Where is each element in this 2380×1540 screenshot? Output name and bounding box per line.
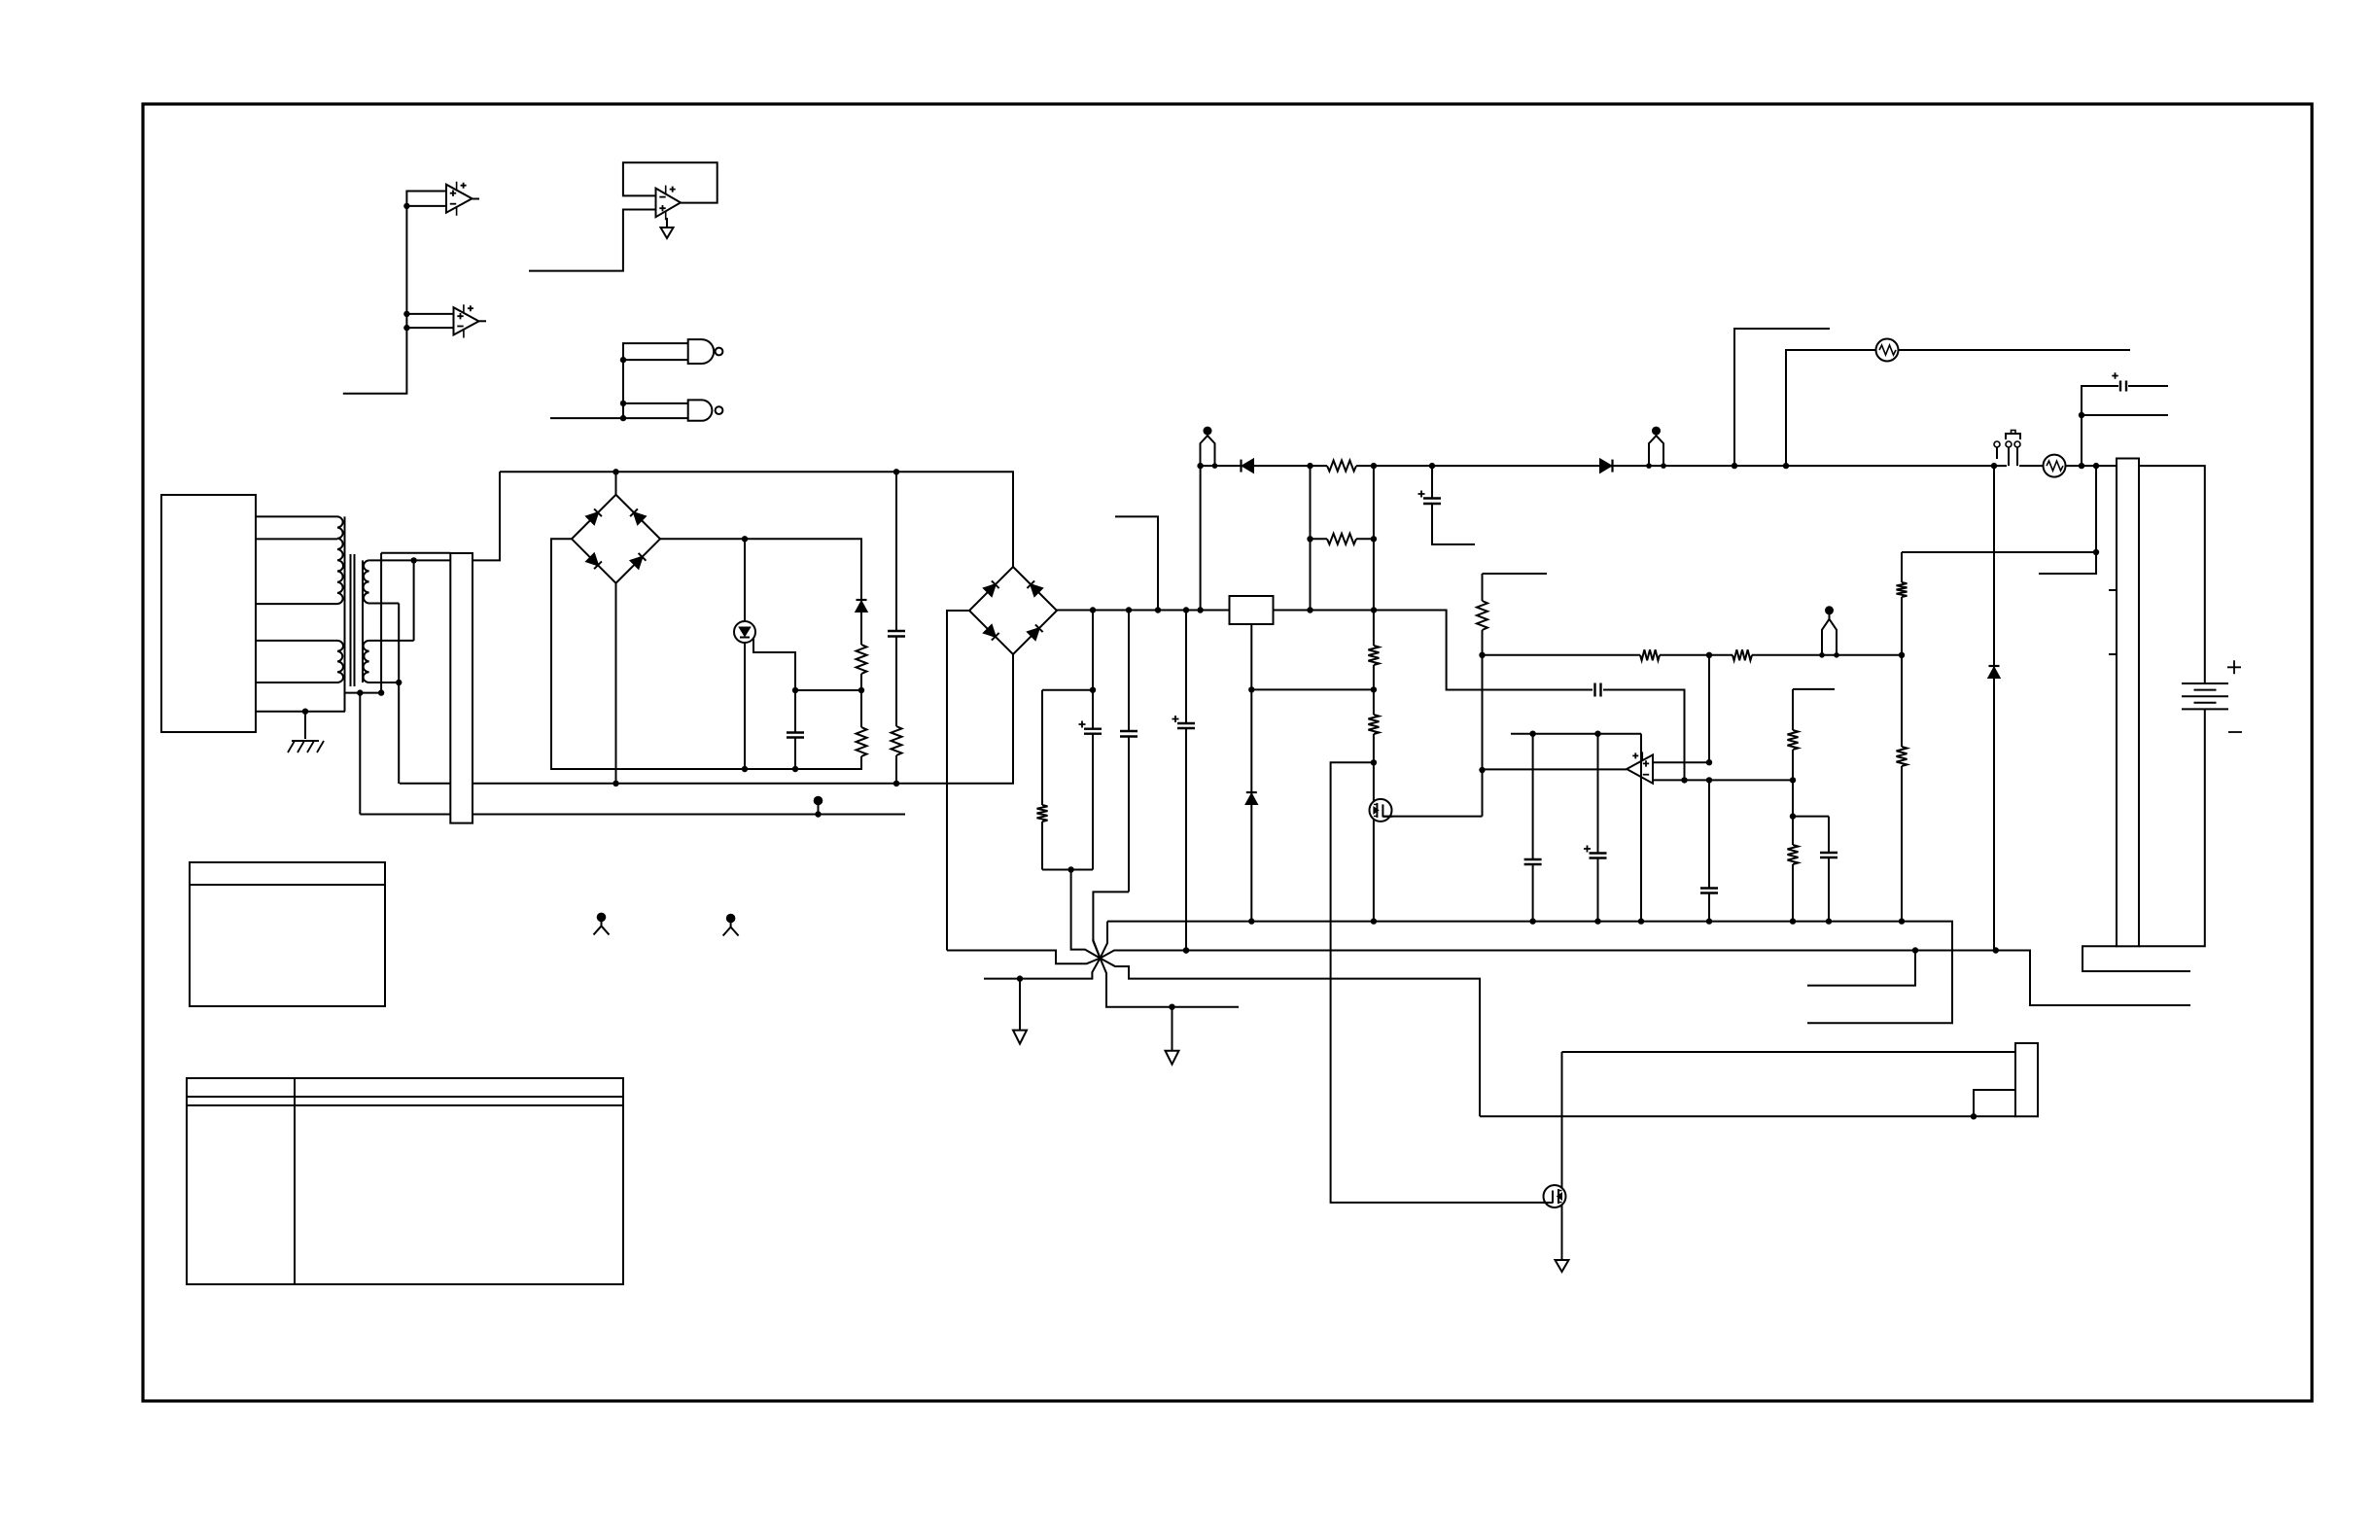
node busA x1881 bbox=[1826, 918, 1832, 924]
resistor R11 bbox=[1327, 534, 1356, 544]
IC box drop bbox=[1250, 624, 1252, 922]
comparator U4 bbox=[1627, 754, 1653, 783]
transformer T1 primary baseline bbox=[344, 516, 346, 711]
wire top-right caps branch bbox=[2082, 386, 2168, 466]
node rail7 bbox=[2079, 463, 2084, 469]
wire busB drop stub bbox=[1807, 951, 1915, 986]
node sn1 bbox=[1090, 687, 1096, 693]
wire B2 left loop bbox=[947, 611, 969, 951]
wire NAND feeder bbox=[623, 343, 688, 418]
node bus4 bbox=[1183, 607, 1189, 612]
wire M1 chain top bbox=[1373, 466, 1375, 646]
bridge rectifier B2 bbox=[969, 567, 1057, 654]
wire stub up-left of B2 bbox=[1115, 516, 1158, 610]
node rail8 bbox=[2093, 463, 2099, 469]
capacitor C4 bbox=[1185, 611, 1187, 724]
node bus2 bbox=[1126, 607, 1132, 612]
wire battery negative bbox=[2139, 709, 2205, 946]
NAND gate G1 bbox=[688, 339, 714, 364]
node L1b bbox=[893, 781, 899, 787]
resistor R1 bbox=[857, 645, 867, 674]
wire U2 top input bbox=[406, 313, 453, 315]
node gA bbox=[1017, 975, 1023, 981]
wire NAND1 lower input bbox=[623, 359, 688, 361]
node b674b bbox=[1706, 652, 1712, 658]
diode D5 bbox=[1246, 794, 1257, 804]
wire U4 plus input bbox=[1653, 761, 1709, 763]
capacitor C1 bbox=[787, 733, 804, 738]
sense divider R10 bbox=[1901, 655, 1903, 747]
capacitor C7 bbox=[1595, 683, 1601, 697]
node sn2 bbox=[1067, 866, 1073, 872]
wire U5 gate step bbox=[753, 639, 795, 691]
node rail6 bbox=[1991, 463, 1997, 469]
resistor R6 bbox=[1640, 649, 1660, 660]
wire snubber to star bbox=[1071, 870, 1101, 959]
wire B1 top lead bbox=[615, 472, 617, 495]
ground GND2 bbox=[1172, 1007, 1173, 1051]
wire D4 branch bbox=[1993, 466, 1995, 950]
node div1 bbox=[1790, 813, 1796, 819]
wire U1 bottom input bbox=[406, 205, 446, 207]
wire cap branch bbox=[1793, 816, 1829, 818]
wire cap line bbox=[1374, 611, 1685, 781]
node busA x1844 bbox=[1790, 918, 1796, 924]
wire U3 plus input bbox=[529, 210, 656, 271]
resistor R7 bbox=[1732, 649, 1752, 660]
wire aux secondary top bbox=[381, 553, 450, 693]
wire star SE line bbox=[1101, 959, 1481, 1117]
capacitor C11 bbox=[1828, 817, 1830, 853]
wire shunt line low bbox=[1480, 1115, 2015, 1117]
wire S2 bottom bbox=[369, 682, 400, 683]
wire primary lead 5 bbox=[256, 682, 337, 683]
node sh1 bbox=[1971, 1113, 1977, 1119]
node rc1 bbox=[1529, 731, 1535, 737]
ground GND1 bbox=[1019, 979, 1021, 1031]
wire inner link bbox=[795, 689, 861, 691]
transformer T1 primary winding 2 bbox=[337, 641, 343, 682]
node L2a bbox=[815, 811, 821, 817]
wire line1 HV return bbox=[400, 654, 1013, 784]
wire J1 to top line bbox=[472, 472, 500, 560]
wire R11 net bbox=[1311, 538, 1374, 540]
wire U4 output bbox=[1483, 768, 1627, 770]
wire IC sense link bbox=[1251, 688, 1374, 690]
node busB2 bbox=[1912, 947, 1918, 953]
node ic1 bbox=[1248, 686, 1254, 692]
node sense1 bbox=[2093, 549, 2099, 555]
transformer T1 primary winding 1 bbox=[337, 516, 343, 604]
node TL2 bbox=[893, 469, 899, 474]
capacitor C5 bbox=[1431, 466, 1433, 498]
node mc2 bbox=[1307, 536, 1312, 542]
transformer T1 secondary winding 1 bbox=[364, 560, 369, 603]
node cmp4 bbox=[1790, 777, 1796, 783]
diode D4 bbox=[1989, 668, 2000, 678]
wire bus B left bbox=[947, 951, 1101, 964]
star junction bbox=[1101, 922, 1108, 959]
resistor R8 bbox=[1477, 601, 1487, 630]
node rail5 bbox=[1783, 463, 1789, 469]
wire Q2 drain line bbox=[1562, 1051, 2016, 1053]
wire chassis ground lead bbox=[304, 712, 306, 739]
wire stub B bbox=[2082, 414, 2168, 416]
resistor R2 bbox=[857, 727, 867, 756]
wire bias drop bbox=[1708, 655, 1710, 762]
node N3 bbox=[620, 415, 626, 421]
capacitor C10 bbox=[1708, 780, 1710, 888]
wire sense link bbox=[1902, 551, 2096, 553]
wire battery positive bbox=[2139, 466, 2205, 683]
node cmp5 bbox=[1706, 777, 1712, 783]
wire DC rail bbox=[1201, 465, 2117, 467]
wire return drop bbox=[359, 693, 361, 815]
wire snubber bottom link bbox=[1042, 869, 1093, 871]
op-amp U3 bbox=[656, 189, 682, 218]
node C1b bbox=[792, 766, 798, 772]
chassis ground bbox=[292, 740, 319, 742]
wire RC top line bbox=[1511, 733, 1641, 735]
transformer T1 core bbox=[350, 554, 352, 686]
border frame bbox=[143, 104, 2312, 1401]
node N1 bbox=[620, 357, 626, 363]
wire NAND2 lower net bbox=[550, 417, 688, 419]
node S1t bbox=[410, 557, 416, 563]
ground GND4 bbox=[1556, 1260, 1569, 1272]
wire thermistor line bbox=[1786, 350, 2130, 466]
node rail3 bbox=[1429, 463, 1435, 469]
capacitor C6 bbox=[2120, 381, 2126, 392]
node busA x1412.9 bbox=[1371, 918, 1377, 924]
node tr1 bbox=[2079, 412, 2084, 418]
pin P2 bbox=[1649, 436, 1663, 466]
wire primary lead 1 bbox=[256, 515, 337, 517]
node bus5 bbox=[1197, 607, 1203, 612]
node bus6 bbox=[1307, 607, 1312, 612]
wire U2 output bbox=[479, 320, 487, 322]
wire snubber top link bbox=[1042, 689, 1093, 691]
op-amp U1 bbox=[446, 185, 472, 213]
wire S1top-S2top tie bbox=[369, 560, 414, 641]
wire shunt stub bbox=[1974, 1090, 2015, 1116]
wire J2 bottom stub bbox=[2082, 946, 2190, 971]
wire C3 jog to star bbox=[1093, 892, 1129, 958]
zener diode D1 bbox=[857, 602, 867, 612]
wire primary lead 4 bbox=[256, 640, 337, 642]
wire U1 top input rail bbox=[343, 192, 446, 394]
wire J2 tick2 bbox=[2109, 653, 2117, 655]
wire U3 feedback loop bbox=[623, 162, 717, 202]
wire bus B right bbox=[1101, 951, 2191, 1006]
op-amp U2 bbox=[454, 307, 479, 334]
node busB3 bbox=[1993, 947, 1999, 953]
resistor chain R3 bbox=[895, 472, 897, 631]
MOSFET Q1 bbox=[1370, 799, 1392, 822]
node gB bbox=[1169, 1004, 1174, 1010]
node busA x1643.5 bbox=[1594, 918, 1600, 924]
wire star SSE line bbox=[1101, 959, 1240, 1007]
wire bus A bbox=[1107, 922, 1952, 1024]
wire J2 tick1 bbox=[2109, 589, 2117, 591]
resistor R5 bbox=[1327, 461, 1356, 472]
capacitor C2 bbox=[1092, 611, 1094, 729]
wire S1 top to connector bbox=[369, 559, 451, 561]
node GNDtap bbox=[302, 709, 308, 715]
wire B1 left loop bbox=[551, 539, 861, 769]
node b674a bbox=[1479, 652, 1485, 658]
MOSFET Q2 bbox=[1544, 1185, 1566, 1207]
wire star SW line bbox=[984, 959, 1101, 979]
divider chain Rdiv bbox=[1793, 688, 1835, 690]
resistor R4 bbox=[1041, 690, 1043, 805]
connector J1 bbox=[450, 553, 472, 823]
node U2b bbox=[403, 325, 409, 331]
wire secondary return stub bbox=[345, 692, 381, 694]
node U1b bbox=[403, 203, 409, 209]
table T2 bbox=[187, 1078, 623, 1284]
diode D2 bbox=[1242, 460, 1253, 472]
capacitor C9 bbox=[1597, 734, 1599, 854]
node U2a bbox=[403, 311, 409, 317]
wire S1 bottom bbox=[369, 604, 400, 785]
connector J2 bbox=[2117, 459, 2139, 947]
optocoupler/regulator U5 bbox=[744, 539, 746, 621]
node rc2 bbox=[1594, 731, 1600, 737]
IC box U6 bbox=[1230, 596, 1274, 624]
node bus1 bbox=[1090, 607, 1096, 612]
resistor R12 bbox=[1368, 646, 1379, 665]
capacitor C8 bbox=[1532, 734, 1534, 859]
wire Q1 gate bbox=[1382, 816, 1482, 818]
capacitor C3 bbox=[1128, 611, 1130, 732]
ground U3 bbox=[666, 218, 668, 227]
jumper SW1 bbox=[2009, 447, 2017, 466]
node mc3 bbox=[1371, 686, 1377, 692]
wire line2 aux return bbox=[360, 814, 905, 816]
test point TP1 bbox=[814, 796, 823, 806]
node rail1 bbox=[1307, 463, 1312, 469]
pin P1 bbox=[1201, 436, 1215, 466]
wire main bus bbox=[1057, 610, 1374, 612]
node C4b bbox=[1183, 947, 1189, 953]
table T1 bbox=[190, 862, 385, 1006]
bridge rectifier B1 bbox=[572, 495, 660, 583]
node opto top bbox=[742, 536, 748, 542]
node bus3 bbox=[1155, 607, 1161, 612]
node b674c bbox=[1899, 652, 1905, 658]
node N2 bbox=[620, 401, 626, 406]
wire NAND2 upper input bbox=[623, 402, 688, 404]
node bus7 bbox=[1371, 607, 1377, 612]
node mc4 bbox=[1371, 759, 1377, 765]
node L1a bbox=[612, 781, 618, 787]
battery BT1 bbox=[2182, 682, 2228, 684]
wire U2 bottom input bbox=[406, 327, 453, 329]
node opto bottom bbox=[742, 766, 748, 772]
wire bias line 674 bbox=[1483, 654, 1903, 656]
node comp1 bbox=[1479, 767, 1485, 773]
wire Q2 vertical bbox=[1561, 1052, 1563, 1260]
node busA x1688 bbox=[1638, 918, 1644, 924]
wire B1 bottom lead bbox=[615, 583, 617, 784]
node chain mid bbox=[858, 687, 864, 693]
wire rail-bus link bbox=[1200, 466, 1202, 610]
node busA x1956 bbox=[1899, 918, 1905, 924]
wire primary lead 2 bbox=[256, 538, 337, 540]
wire gate drive drop bbox=[1331, 762, 1553, 1203]
node SR2 bbox=[378, 689, 384, 695]
net flag A2 bbox=[726, 914, 736, 924]
node mc1 bbox=[1371, 536, 1377, 542]
wire HV top line bbox=[500, 472, 1013, 567]
thermistor TH1 bbox=[1876, 339, 1899, 362]
wire RC right leg bbox=[1640, 734, 1642, 922]
wire U1 output bbox=[472, 198, 480, 200]
NAND gate G2 bbox=[688, 400, 713, 420]
node S2b bbox=[396, 680, 402, 685]
node rail4 bbox=[1732, 463, 1737, 469]
node rail2 bbox=[1371, 463, 1377, 469]
node rail0 bbox=[1197, 463, 1203, 469]
wire U4 minus input bbox=[1653, 779, 1793, 781]
wire stub A bbox=[1734, 329, 1830, 466]
node busA x1758 bbox=[1706, 918, 1712, 924]
node C-step bbox=[792, 687, 798, 693]
wire sense branch bbox=[2039, 466, 2096, 574]
transformer T1 secondary baseline bbox=[362, 560, 364, 682]
node busB1 bbox=[1183, 947, 1189, 953]
net flag A1 bbox=[597, 913, 607, 923]
wire primary lead 3 bbox=[256, 603, 337, 605]
diode D3 bbox=[1600, 460, 1611, 472]
resistor R13 bbox=[1368, 715, 1379, 734]
pin P3 bbox=[1822, 619, 1837, 655]
transformer T1 secondary winding 2 bbox=[364, 641, 369, 682]
wire comp vert chain bbox=[1483, 574, 1548, 601]
node SR1 bbox=[357, 689, 363, 695]
wire primary bottom lead bbox=[256, 711, 345, 713]
wire R link bbox=[1310, 466, 1312, 610]
node cmp2 bbox=[1681, 777, 1687, 783]
node cmp3 bbox=[1706, 759, 1712, 765]
thermistor TH2 bbox=[2044, 455, 2066, 477]
AC input block bbox=[161, 495, 256, 732]
node TL1 bbox=[612, 469, 618, 474]
sense divider R9 bbox=[1901, 552, 1903, 582]
node busA x1576.6 bbox=[1529, 918, 1535, 924]
node busA x1287.3 bbox=[1248, 918, 1254, 924]
connector J3 bbox=[2015, 1043, 2038, 1116]
